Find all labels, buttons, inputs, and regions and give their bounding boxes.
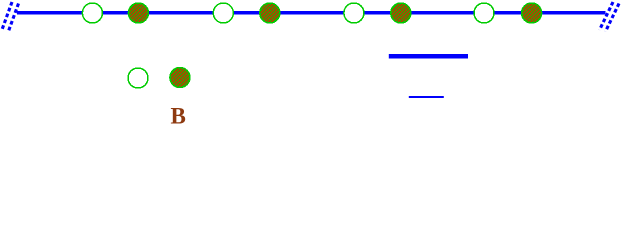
particle 4: hatched circle (260, 3, 280, 23)
svg-text:B: B (171, 104, 186, 129)
particle 6: hatched circle (391, 3, 411, 23)
particle 3: open circle (213, 3, 233, 23)
particle 8: hatched circle (522, 3, 542, 23)
particle 7: open circle (474, 3, 494, 23)
right break marks // (600, 2, 620, 32)
thin blue bar (409, 96, 444, 98)
thick blue bar (389, 54, 468, 59)
left break marks // (2, 2, 19, 33)
particle 1: open circle (82, 3, 102, 23)
particle 2: hatched circle (128, 3, 148, 23)
legend open circle (128, 68, 148, 88)
legend hatched circle (170, 68, 190, 88)
wire: main horizontal line (17, 11, 606, 15)
particle 5: open circle (344, 3, 364, 23)
